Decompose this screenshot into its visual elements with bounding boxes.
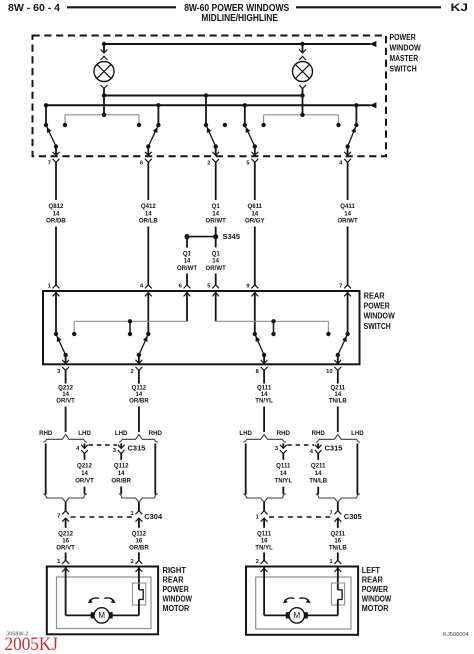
node: rear switch pin 3 blade pivot xyxy=(63,353,67,357)
svg-text:POWER: POWER xyxy=(163,584,190,594)
wire: right lead through circuit breaker xyxy=(337,568,339,590)
wire: master pin 2 to connector xyxy=(215,147,217,157)
svg-text:14: 14 xyxy=(184,258,191,265)
wire: lamp E1 lead down to illumination bus xyxy=(103,96,105,115)
svg-text:RIGHT: RIGHT xyxy=(163,565,187,575)
node: rear switch pin7 fixed contact xyxy=(345,332,349,336)
svg-text:14: 14 xyxy=(145,210,152,217)
wire Q112 14 OR/BR: rear switch output down to harness split xyxy=(138,371,140,384)
connector: rear switch pin 1 (top) xyxy=(53,285,60,297)
node: sub-bus contact (pin 5 throw) xyxy=(261,123,265,127)
connector C304 (dashed tie) xyxy=(71,516,134,518)
svg-text:7: 7 xyxy=(48,161,51,167)
connector: master switch pin 7 xyxy=(53,152,60,163)
wire Q412 14 OR/LB: master pin6 to rear switch pin4 xyxy=(147,162,149,200)
connector: rear switch pin 6 (top) xyxy=(184,285,191,297)
wire Q1 14 OR/WT: master pin2 down to splice S345 xyxy=(215,162,217,200)
wire: rejoined output down to body connector xyxy=(138,502,140,511)
arrowhead: feed continues to right xyxy=(370,41,377,47)
svg-text:RHD: RHD xyxy=(149,430,163,437)
wire: left sub-bus (gray) xyxy=(74,320,187,322)
wire: master pin 6 to connector xyxy=(147,147,149,157)
svg-text:C315: C315 xyxy=(128,443,146,452)
node: lamp E1 to sub-bus xyxy=(102,113,106,117)
svg-text:Q1: Q1 xyxy=(212,203,221,210)
connector pin 1 xyxy=(136,511,143,515)
node: master pin 2 blade pivot xyxy=(214,144,218,148)
node: lamp E1 bottom junction xyxy=(102,93,106,97)
svg-text:OR/BR: OR/BR xyxy=(129,544,149,551)
wire: rejoined output down to body connector xyxy=(263,502,265,511)
harness rejoin brace xyxy=(243,494,285,503)
svg-text:MASTER: MASTER xyxy=(390,53,419,63)
svg-text:OR/WT: OR/WT xyxy=(206,265,227,272)
wire: master switch pin7 feed drop xyxy=(45,105,47,125)
node: lamp E2 bottom junction xyxy=(300,93,304,97)
wire Q411 14 OR/WT: master pin4 to rear switch pin7 xyxy=(347,162,349,200)
svg-text:WINDOW: WINDOW xyxy=(163,593,193,603)
svg-text:OR/WT: OR/WT xyxy=(177,265,198,272)
node: pin4 feed fixed contact xyxy=(354,123,358,127)
wire: rear switch pin 3 to connector xyxy=(65,355,67,364)
node: stub junction xyxy=(271,319,275,323)
svg-text:WINDOW: WINDOW xyxy=(362,593,392,603)
connector: rear switch pin 9 (top) xyxy=(251,285,258,297)
wire: RHD bypass Q112 (no in-line connector) xyxy=(154,443,156,494)
rotation arrows xyxy=(284,598,294,601)
switch blade: rear switch pin 10 pole xyxy=(338,334,348,355)
wire Q211 14 TN/LB through C315 xyxy=(317,454,319,460)
wire: rear switch pin9 feed drop xyxy=(254,292,256,334)
switch blade: master pin 6 pole xyxy=(148,125,158,147)
wire: rear switch pin1 feed drop xyxy=(55,292,57,334)
wire: master pin 5 to connector xyxy=(254,147,256,157)
wire Q211 14 TN/LB: rear switch output down to harness split xyxy=(337,371,339,384)
svg-text:Q412: Q412 xyxy=(141,203,157,210)
switch blade: master pin 2 pole xyxy=(206,125,216,147)
svg-text:POWER: POWER xyxy=(364,301,391,311)
svg-text:OR/WT: OR/WT xyxy=(337,218,358,225)
svg-text:14: 14 xyxy=(212,258,219,265)
motor brush tabs xyxy=(286,612,289,618)
connector: rear switch pin 7 (top) xyxy=(344,285,351,297)
svg-text:POWER: POWER xyxy=(362,584,389,594)
svg-text:WINDOW: WINDOW xyxy=(364,311,396,321)
wire: lamp return bus (y=95.5) xyxy=(104,95,303,97)
svg-text:14: 14 xyxy=(344,210,351,217)
svg-text:C305: C305 xyxy=(344,512,362,521)
wire: rear switch pin 8 to connector xyxy=(263,355,265,364)
harness rejoin brace xyxy=(43,494,87,503)
svg-text:REAR: REAR xyxy=(364,290,386,300)
connector: master switch pin 6 xyxy=(145,152,152,163)
node: master pin 4 blade pivot xyxy=(345,144,349,148)
wire: battery feed bus (top, y=44) xyxy=(104,43,371,45)
wire: rear switch pin6 drop to left sub-bus xyxy=(186,292,188,321)
svg-text:OR/BR: OR/BR xyxy=(111,477,131,484)
connector: master switch pin 2 xyxy=(212,152,219,163)
node: stub contact xyxy=(128,332,132,336)
svg-text:OR/GY: OR/GY xyxy=(245,218,265,225)
svg-text:14: 14 xyxy=(81,470,88,477)
circuit breaker (self-resetting) xyxy=(133,583,146,605)
wire: rear switch pin5 drop to right sub-bus xyxy=(215,292,217,321)
wire: master switch pin2 feed drop xyxy=(205,96,207,126)
wire: right lead through circuit breaker xyxy=(138,568,140,590)
rotation arrows xyxy=(89,598,99,601)
svg-text:Q1: Q1 xyxy=(212,250,221,257)
node: rear switch pin 2 blade pivot xyxy=(137,353,141,357)
svg-text:Q1: Q1 xyxy=(183,250,192,257)
node: sub-bus contact (pin 7 throw) xyxy=(63,123,67,127)
svg-text:POWER: POWER xyxy=(390,32,417,42)
svg-text:M: M xyxy=(98,611,105,620)
svg-text:2: 2 xyxy=(256,559,259,565)
switch blade: rear switch pin 2 pole xyxy=(139,334,148,355)
wire: sub-bus stub contact xyxy=(129,321,131,334)
motor brush tabs xyxy=(91,612,94,618)
svg-text:8W - 60 - 4: 8W - 60 - 4 xyxy=(8,3,60,14)
svg-text:SWITCH: SWITCH xyxy=(390,64,417,74)
switch blade: rear switch pin 8 pole xyxy=(255,334,264,355)
switch blade: master pin 4 pole xyxy=(348,125,357,147)
svg-text:TN/YL: TN/YL xyxy=(274,477,292,484)
node: pin7 feed fixed contact xyxy=(44,123,48,127)
svg-text:RHD: RHD xyxy=(277,430,291,437)
node: rear switch pin 8 blade pivot xyxy=(262,353,266,357)
svg-text:OR/WT: OR/WT xyxy=(206,218,227,225)
connector: rear switch pin 4 (top) xyxy=(145,285,152,297)
svg-text:KJ: KJ xyxy=(451,2,469,14)
wire: rejoined output down to body connector xyxy=(337,502,339,511)
node: lamp E2 to sub-bus xyxy=(300,113,304,117)
power window master switch S1 (dashed enclosure) xyxy=(33,36,387,157)
svg-text:M: M xyxy=(293,611,300,620)
svg-text:8W-60 POWER WINDOWS: 8W-60 POWER WINDOWS xyxy=(184,3,289,14)
wire: master switch pin4 feed drop xyxy=(355,105,357,125)
svg-text:2: 2 xyxy=(207,161,210,167)
wire: left lead to motor xyxy=(263,568,265,616)
wire Q212 14 OR/VT: rear switch output down to harness split xyxy=(65,371,67,384)
switch blade: rear switch pin 3 pole xyxy=(56,334,66,355)
svg-text:2: 2 xyxy=(130,369,133,375)
node: rear switch pin1 fixed contact xyxy=(54,332,58,336)
svg-text:SWITCH: SWITCH xyxy=(364,321,391,331)
svg-text:LHD: LHD xyxy=(239,430,252,437)
inner enclosure (gray) xyxy=(256,577,351,629)
wire Q212 14 OR/VT through C315 xyxy=(84,454,86,460)
connector: rear switch pin 10 (bottom) xyxy=(334,360,341,371)
motor armature M xyxy=(94,608,109,623)
circuit breaker (self-resetting) xyxy=(331,583,344,605)
svg-text:TN/YL: TN/YL xyxy=(255,544,273,551)
svg-text:Q111: Q111 xyxy=(276,463,291,470)
svg-text:7: 7 xyxy=(339,284,342,290)
wire Q112 14 OR/BR through C315 xyxy=(120,454,122,460)
arrowhead: bus continues to right xyxy=(370,102,377,108)
svg-text:14: 14 xyxy=(53,210,60,217)
connector: rear switch pin 2 (bottom) xyxy=(136,360,143,371)
svg-text:OR/DB: OR/DB xyxy=(46,218,66,225)
svg-text:OR/BR: OR/BR xyxy=(129,398,149,405)
node: stub junction xyxy=(128,319,132,323)
switch blade: master pin 5 pole xyxy=(245,125,255,147)
wire: RHD bypass Q212 (no in-line connector) xyxy=(45,443,47,494)
wire: LHD bypass Q111 (no in-line connector) xyxy=(245,443,247,494)
svg-text:TN/LB: TN/LB xyxy=(329,544,348,551)
svg-text:C304: C304 xyxy=(144,512,163,521)
node: sub-bus contact (pin 4 throw) xyxy=(336,123,340,127)
wire: right sub-bus (gray) xyxy=(216,320,329,322)
connector: motor pin 2 xyxy=(136,560,143,572)
wire: rear switch pin7 feed drop xyxy=(347,292,349,334)
connector C315 pin 4 xyxy=(317,443,319,448)
wire Q111 14 TN/YL: rear switch output down to harness split xyxy=(263,371,265,384)
node: master pin 7 blade pivot xyxy=(54,144,58,148)
svg-text:OR/VT: OR/VT xyxy=(56,544,75,551)
splice S345 xyxy=(187,236,216,238)
svg-text:7: 7 xyxy=(329,510,332,516)
svg-text:LHD: LHD xyxy=(351,430,364,437)
wire: master switch pin5 feed drop xyxy=(244,105,246,125)
svg-text:C315: C315 xyxy=(325,443,343,452)
svg-text:LHD: LHD xyxy=(78,430,91,437)
node: lamp E2 top junction xyxy=(300,42,304,46)
rear power window switch S2 (enclosure) xyxy=(43,291,360,364)
lamp E1 (switch illumination, left) xyxy=(94,62,114,82)
node: sub-bus contact (pin 6 throw) xyxy=(137,123,141,127)
svg-text:Q812: Q812 xyxy=(49,203,65,210)
node: pin4 feed junction on bus xyxy=(354,103,358,107)
svg-text:Q211: Q211 xyxy=(331,531,346,538)
connector: master switch pin 4 xyxy=(344,152,351,163)
svg-text:LEFT: LEFT xyxy=(362,565,381,575)
wire: lamp E2 lead down to illumination bus xyxy=(302,96,304,115)
connector: motor pin 1 xyxy=(334,560,341,572)
svg-text:Q112: Q112 xyxy=(132,531,147,538)
wire: master pin 7 to connector xyxy=(55,147,57,157)
connector: motor pin 1 xyxy=(62,560,69,572)
svg-text:MIDLINE/HIGHLINE: MIDLINE/HIGHLINE xyxy=(201,13,278,24)
wire Q812 14 OR/DB: master pin7 to rear switch pin1 xyxy=(55,162,57,200)
connector: motor pin 2 xyxy=(261,560,268,572)
svg-text:Q212: Q212 xyxy=(77,463,93,470)
node: rear switch pin4 fixed contact xyxy=(146,332,150,336)
connector: rear switch pin 3 (bottom) xyxy=(62,360,69,371)
svg-text:2: 2 xyxy=(130,559,133,565)
svg-text:14: 14 xyxy=(212,210,219,217)
wire: sub-bus stub contact xyxy=(273,321,275,334)
svg-text:14: 14 xyxy=(315,470,322,477)
wire: illumination sub-bus left (gray) xyxy=(65,114,139,116)
svg-text:MOTOR: MOTOR xyxy=(163,603,190,613)
svg-text:TN/LB: TN/LB xyxy=(329,398,348,405)
wire: rejoined output down to body connector xyxy=(65,502,67,511)
node: master pin 5 blade pivot xyxy=(253,144,257,148)
node: sub-bus end contact xyxy=(326,332,330,336)
connector pin 7 xyxy=(62,511,69,515)
wire: switched ground bus (y=105.3) xyxy=(46,104,371,106)
wire Q611 14 OR/GY: master pin5 to rear switch pin9 xyxy=(254,162,256,200)
node: master pin 6 blade pivot xyxy=(146,144,150,148)
svg-text:Q111: Q111 xyxy=(257,531,272,538)
node: pin7 feed junction on bus xyxy=(44,103,48,107)
wire Q111 14 TN/YL through C315 xyxy=(282,454,284,460)
wire Q1 14 OR/WT: splice S345 branch to rear switch pin6 xyxy=(186,239,188,248)
svg-text:RHD: RHD xyxy=(312,430,326,437)
svg-text:14: 14 xyxy=(280,470,287,477)
node: junction feed of front-passenger contact xyxy=(204,93,208,97)
svg-text:Q212: Q212 xyxy=(58,531,74,538)
wire: left lead to motor xyxy=(65,568,67,616)
wire Q1 14 OR/WT: splice S345 to rear switch pin5 xyxy=(215,239,217,248)
node: pin6 feed fixed contact xyxy=(156,123,160,127)
harness rejoin brace xyxy=(119,494,158,503)
svg-text:OR/VT: OR/VT xyxy=(56,398,75,405)
svg-text:S345: S345 xyxy=(223,232,241,241)
inner enclosure (gray) xyxy=(57,577,152,629)
node: pin5 feed fixed contact xyxy=(243,123,247,127)
wire: rear switch pin 10 to connector xyxy=(337,355,339,364)
harness rejoin brace xyxy=(316,494,360,503)
node: sub-bus end contact xyxy=(72,332,76,336)
node: rear switch pin9 fixed contact xyxy=(253,332,257,336)
svg-text:TN/LB: TN/LB xyxy=(309,477,328,484)
svg-text:MOTOR: MOTOR xyxy=(362,603,389,613)
svg-text:Q112: Q112 xyxy=(114,463,129,470)
svg-text:Q411: Q411 xyxy=(340,203,355,210)
connector C315 pin 3 xyxy=(120,443,122,448)
connector: rear switch pin 8 (bottom) xyxy=(261,360,268,371)
connector C305 (dashed tie) xyxy=(269,516,333,518)
svg-text:WINDOW: WINDOW xyxy=(390,42,422,52)
svg-text:14: 14 xyxy=(118,470,125,477)
wire: LHD bypass Q211 (no in-line connector) xyxy=(356,443,358,494)
header rule right xyxy=(296,6,441,8)
node: unused contact (pin 2 throw) xyxy=(223,123,227,127)
motor armature M xyxy=(289,608,304,623)
connector C315 (left, dashed tie) xyxy=(89,444,118,446)
svg-text:Q611: Q611 xyxy=(248,203,263,210)
node: pin2 feed fixed contact xyxy=(204,123,208,127)
connector pin 7 xyxy=(334,511,341,515)
lamp E2 (switch illumination, right) xyxy=(293,62,313,82)
node: lamp E1 top junction xyxy=(102,42,106,46)
svg-text:KJ506004: KJ506004 xyxy=(443,632,469,638)
connector C315 pin 3 xyxy=(282,443,284,448)
wire: master pin 4 to connector xyxy=(347,147,349,157)
outer enclosure xyxy=(47,567,158,635)
wire: master switch pin6 feed drop xyxy=(157,105,159,125)
node: pin5 feed junction on bus xyxy=(243,103,247,107)
svg-text:OR/LB: OR/LB xyxy=(139,218,159,225)
node: pin6 feed junction on bus xyxy=(156,103,160,107)
svg-text:2005KJ: 2005KJ xyxy=(5,635,59,654)
node: stub contact xyxy=(271,332,275,336)
connector C315 pin 4 xyxy=(84,443,86,448)
svg-text:REAR: REAR xyxy=(163,574,185,584)
svg-text:7: 7 xyxy=(57,514,60,520)
svg-text:TN/YL: TN/YL xyxy=(255,398,273,405)
outer enclosure xyxy=(246,567,358,635)
wire: illumination sub-bus right (gray) xyxy=(264,114,339,116)
connector C315 (right, dashed tie) xyxy=(287,444,314,446)
wire: rear switch pin4 feed drop xyxy=(147,292,149,334)
svg-text:14: 14 xyxy=(251,210,258,217)
svg-text:10: 10 xyxy=(326,369,332,375)
header rule left xyxy=(67,6,176,8)
connector pin 1 xyxy=(261,511,268,515)
svg-text:OR/VT: OR/VT xyxy=(75,477,94,484)
svg-text:Q211: Q211 xyxy=(311,463,326,470)
switch blade: master pin 7 pole xyxy=(46,125,56,147)
svg-text:REAR: REAR xyxy=(362,574,384,584)
svg-text:LHD: LHD xyxy=(115,430,128,437)
svg-text:RHD: RHD xyxy=(39,430,53,437)
node: rear switch pin 10 blade pivot xyxy=(336,353,340,357)
connector: rear switch pin 5 (top) xyxy=(212,285,219,297)
connector: master switch pin 5 xyxy=(251,152,258,163)
wire: rear switch pin 2 to connector xyxy=(138,355,140,364)
